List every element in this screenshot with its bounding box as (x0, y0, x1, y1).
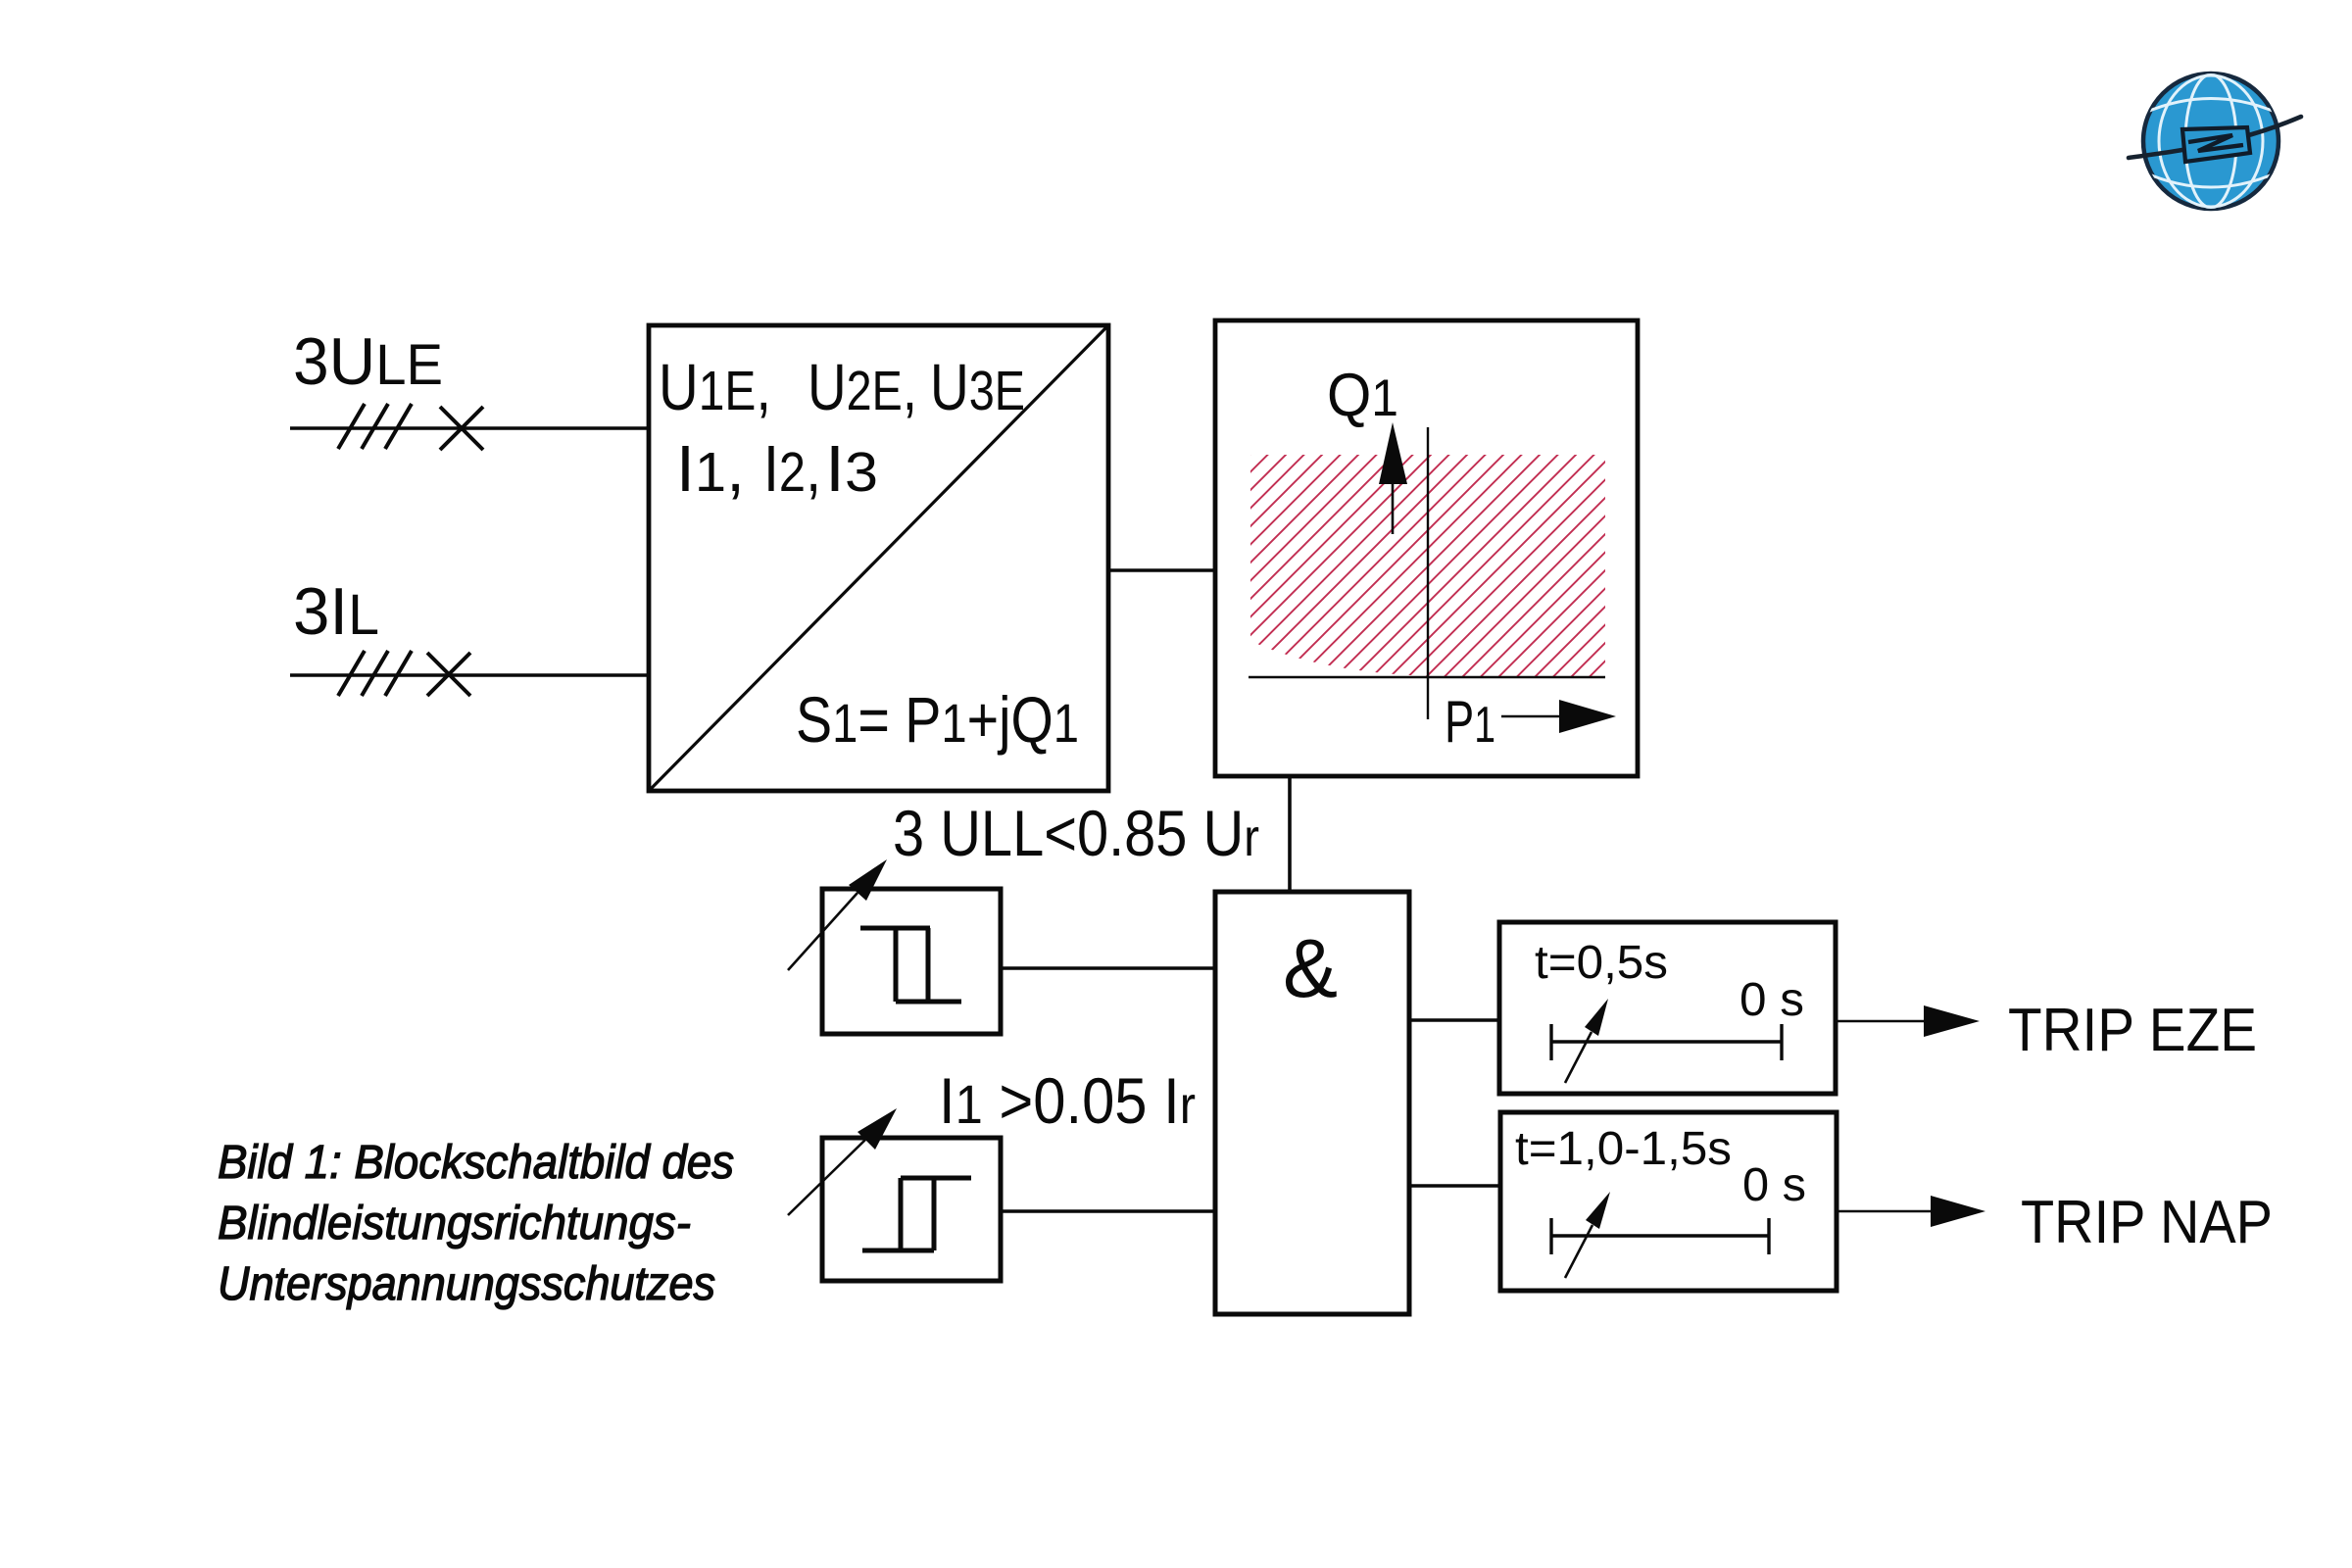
svg-text:I1,: I1, (676, 432, 745, 506)
timer bar (timer 1) (1551, 1024, 1782, 1060)
svg-text:U3E: U3E (930, 351, 1025, 424)
svg-text:P1: P1 (1445, 689, 1495, 755)
timer box t=0,5s (1499, 922, 1836, 1094)
wire measuring box to Q-P box (1108, 568, 1215, 571)
three-phase slash marks (3IL) (338, 651, 412, 696)
adjustment arrow (timer 1) (1565, 999, 1608, 1083)
hysteresis symbol (current) (862, 1178, 971, 1250)
adjustment arrow (timer 2) (1565, 1192, 1610, 1278)
timer box t=1,0-1,5s (1500, 1112, 1837, 1291)
svg-text:&: & (1283, 922, 1338, 1014)
svg-text:3ULE: 3ULE (293, 324, 443, 399)
measuring unit box (S1=P1+jQ1) (649, 325, 1108, 791)
svg-text:t=1,0-1,5s: t=1,0-1,5s (1515, 1123, 1732, 1175)
wire timer 1 to TRIP EZE (1836, 1005, 1980, 1037)
svg-text:Q1: Q1 (1327, 362, 1398, 429)
swoosh (2129, 117, 2301, 158)
svg-text:TRIP EZE: TRIP EZE (2008, 997, 2257, 1064)
wire undervoltage element to AND gate (1001, 966, 1215, 970)
svg-text:U2E,: U2E, (808, 351, 917, 424)
svg-text:I3: I3 (825, 432, 878, 506)
three-phase slash marks (3ULE) (338, 404, 412, 449)
wire Q-P box to AND gate (1288, 776, 1292, 892)
svg-text:S1= P1+jQ1: S1= P1+jQ1 (796, 683, 1079, 756)
svg-text:Unterspannungsschutzes: Unterspannungsschutzes (218, 1258, 715, 1310)
wire AND gate to timer t=0,5s (1409, 1018, 1499, 1022)
vertical axis (1427, 427, 1429, 719)
adjustment arrow (undervoltage) (788, 859, 887, 970)
svg-text:Bild 1: Blockschaltbild des: Bild 1: Blockschaltbild des (218, 1137, 734, 1189)
current element box (822, 1138, 1001, 1281)
logo globe (2129, 73, 2301, 209)
diagonal of measuring box (651, 327, 1106, 789)
Q1 axis arrow (1379, 422, 1407, 534)
wire 3ULE input (290, 426, 649, 429)
AND gate (1215, 892, 1409, 1314)
X mark (3ULE) (440, 407, 483, 450)
Q-P characteristic box (1215, 320, 1638, 776)
undervoltage element box (822, 889, 1001, 1034)
Z mark (2188, 135, 2243, 151)
caption Bild 1 (218, 1137, 734, 1310)
hatched tripping region (1250, 455, 1605, 676)
svg-text:I1 >0.05 Ir: I1 >0.05 Ir (939, 1064, 1196, 1137)
svg-text:3IL: 3IL (293, 574, 379, 649)
X mark (3IL) (427, 653, 470, 696)
wire timer 2 to TRIP NAP (1837, 1196, 1985, 1227)
svg-text:I2,: I2, (763, 432, 821, 506)
adjustment arrow (current) (788, 1108, 897, 1215)
svg-text:3 ULL<0.85 Ur: 3 ULL<0.85 Ur (893, 797, 1259, 869)
svg-text:0 s: 0 s (1739, 974, 1804, 1026)
wire current element to AND gate (1001, 1209, 1215, 1213)
svg-text:t=0,5s: t=0,5s (1535, 937, 1668, 989)
svg-text:0 s: 0 s (1742, 1159, 1806, 1211)
parallelogram emblem (2182, 127, 2250, 162)
P1 axis arrow (1501, 700, 1616, 733)
timer bar (timer 2) (1551, 1218, 1769, 1254)
hysteresis symbol (undervoltage) (860, 928, 961, 1002)
wire AND gate to timer t=1,0-1,5s (1409, 1184, 1500, 1188)
wire 3IL input (290, 673, 649, 676)
svg-text:U1E,: U1E, (659, 351, 771, 424)
svg-text:Blindleistungsrichtungs-: Blindleistungsrichtungs- (218, 1198, 691, 1249)
horizontal axis (1249, 676, 1605, 678)
svg-text:TRIP NAP: TRIP NAP (2021, 1189, 2273, 1256)
